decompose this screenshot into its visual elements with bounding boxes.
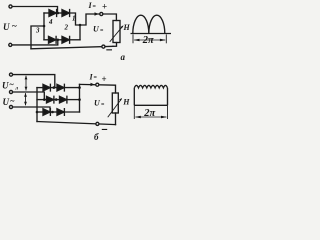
node b-r2in (43, 98, 46, 101)
wire a: between top diodes (58, 12, 62, 14)
arrow through load a (110, 26, 123, 41)
diode 4 (49, 10, 57, 17)
node b-r3m (51, 111, 54, 114)
svg-text:1: 1 (72, 15, 76, 23)
wire b: row3 right (65, 111, 80, 113)
node b-r1m (53, 86, 56, 89)
node a-TM (57, 12, 60, 15)
svg-text:+: + (102, 2, 107, 12)
svg-text:2: 2 (64, 24, 69, 32)
wire b: row2 right (67, 99, 79, 101)
diode 1 (62, 10, 70, 17)
waveform b (134, 85, 167, 119)
wire b: row3 mid (51, 111, 57, 113)
svg-text:U: U (2, 81, 9, 91)
terminal b-in2 (9, 90, 12, 93)
svg-text:H: H (122, 98, 130, 107)
terminal a-in1 (9, 5, 12, 8)
wire b: row2 mid (54, 99, 60, 101)
wire a: left vertical (43, 13, 45, 40)
svg-text:=: = (101, 103, 105, 109)
dimension arrowheads (b) (135, 116, 141, 119)
wire b: row 2 (37, 99, 47, 101)
node a-BM (57, 39, 60, 42)
diode b21 (47, 96, 54, 103)
svg-text:а: а (121, 52, 126, 62)
wire a: DC return (31, 46, 113, 49)
svg-text:=: = (94, 76, 98, 82)
wire b: row1 mid (51, 87, 57, 89)
diode b22 (60, 96, 67, 103)
wire a: minus tap (31, 26, 44, 49)
diode b31 (43, 109, 50, 116)
current arrow a (87, 12, 99, 15)
wire a: load bottom (113, 43, 117, 47)
wire b: DC return (37, 122, 116, 125)
waveform a (131, 15, 172, 43)
resistor H (load b) (112, 93, 118, 113)
diode b32 (57, 109, 64, 116)
diode b12 (57, 84, 64, 91)
label minus (b) (102, 129, 107, 130)
node a-minus (43, 25, 46, 28)
wire b: phase 1 (13, 75, 55, 88)
svg-text:H: H (123, 23, 131, 32)
svg-text:2π: 2π (142, 35, 154, 46)
terminal b-in3 (9, 105, 12, 108)
node b-bus2 (78, 98, 81, 101)
arrow through load b (108, 99, 121, 117)
svg-text:л: л (14, 86, 18, 92)
wire a: bridge bottom row (44, 39, 49, 41)
wire b: row1 right (65, 87, 80, 89)
current arrow b (83, 83, 95, 86)
diode 3 (49, 36, 57, 43)
svg-text:2π: 2π (143, 108, 155, 119)
wire b: row 3 (37, 111, 43, 113)
terminal b-minus (96, 122, 99, 125)
wire a: top row to right step (70, 13, 117, 25)
wire b: phase 3 (13, 107, 50, 112)
wire b: right bus (79, 84, 81, 112)
svg-text:4: 4 (48, 18, 53, 26)
wire b: row 1 (37, 87, 43, 89)
svg-text:U: U (3, 22, 10, 32)
svg-text:U: U (3, 97, 10, 107)
wire a: between bottom diodes (58, 39, 62, 41)
voltage arrow b1 (25, 76, 27, 90)
terminal a-in2 (9, 43, 12, 46)
wire a: right vertical (79, 25, 81, 40)
svg-text:=: = (93, 4, 97, 10)
wire a: bottom row right (70, 39, 80, 41)
resistor H (load a) (113, 21, 120, 43)
wire b: left bus (36, 88, 38, 122)
wire b: load bottom stub (115, 113, 117, 125)
dimension arrowheads (a) (134, 39, 140, 42)
svg-text:3: 3 (35, 27, 40, 35)
node b-bus1 (78, 86, 81, 89)
svg-text:б: б (94, 132, 99, 142)
node b-r2m (55, 98, 58, 101)
label minus (a) (106, 49, 112, 50)
voltage arrow b2 (25, 94, 27, 105)
terminal a-plus (100, 12, 103, 15)
node b-r3in (36, 111, 39, 114)
svg-text:=: = (100, 29, 104, 35)
svg-text:+: + (102, 74, 107, 84)
wire a: bridge top row (44, 12, 49, 14)
voltage arrowheads b2 (24, 93, 27, 97)
node a-plus (79, 24, 82, 27)
terminal b-plus (96, 83, 99, 86)
diode b11 (43, 84, 50, 91)
wire b: phase 2 (13, 92, 45, 99)
diode 2 (62, 36, 70, 43)
wire a: bottom AC lead (12, 40, 58, 45)
wire a: top AC lead (12, 7, 57, 13)
svg-text:~: ~ (12, 21, 17, 31)
terminal a-minus (102, 45, 105, 48)
terminal b-in1 (9, 73, 12, 76)
voltage arrowheads b1 (25, 76, 28, 80)
wire b: DC plus out (80, 84, 116, 93)
